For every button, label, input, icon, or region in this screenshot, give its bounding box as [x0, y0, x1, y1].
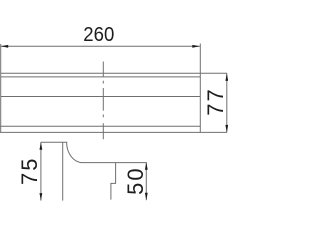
wire right edge of plan rect: [199, 44, 201, 133]
wire inner line A: [1, 76, 201, 78]
profile fillet curve and front ledge: [67, 142, 147, 162]
wire inner line C: [0, 125, 200, 127]
dimension line 75: [40, 142, 42, 200]
svg-text:50: 50: [123, 166, 148, 194]
profile front step: [111, 163, 116, 200]
arrow 50 top: [145, 162, 148, 170]
arrow 77 bottom: [225, 125, 228, 132]
profile back vertical: [62, 142, 64, 200]
arrow 77 top: [225, 73, 228, 81]
dimension line 260: [1, 45, 200, 47]
dimension line 77: [226, 73, 228, 132]
dimension line 50: [145, 162, 147, 200]
wire inner line B: [1, 96, 201, 98]
arrow 260 right: [192, 45, 200, 48]
centerline dash-dot: [102, 62, 104, 140]
wire top edge of plan rect with right extension: [1, 72, 227, 74]
arrow 260 left: [1, 45, 9, 48]
wire left edge of plan rect: [0, 44, 2, 132]
svg-text:75: 75: [17, 157, 42, 185]
svg-text:260: 260: [83, 23, 114, 46]
arrow 50 bottom: [145, 193, 148, 201]
arrow 75 bottom: [40, 193, 43, 201]
wire bottom edge of plan rect with right extension: [0, 131, 227, 133]
arrow 75 top: [40, 142, 43, 150]
svg-text:77: 77: [203, 87, 228, 115]
profile top edge with left extension: [41, 141, 67, 143]
